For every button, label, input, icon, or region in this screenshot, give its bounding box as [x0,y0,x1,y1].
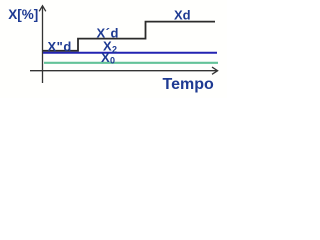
svg-text:Tempo: Tempo [163,76,214,93]
x-axis [30,67,218,74]
X2 line [43,52,217,54]
reactance step curve (X"d -> X'd -> Xd) [43,22,215,51]
svg-text:Xd: Xd [174,7,191,22]
svg-text:X[%]: X[%] [8,7,38,22]
X0 line [44,62,218,64]
svg-text:2: 2 [112,45,117,55]
svg-text:X"d: X"d [48,39,72,54]
y-axis [39,6,46,83]
svg-text:0: 0 [110,56,115,66]
svg-text:X: X [101,50,110,65]
